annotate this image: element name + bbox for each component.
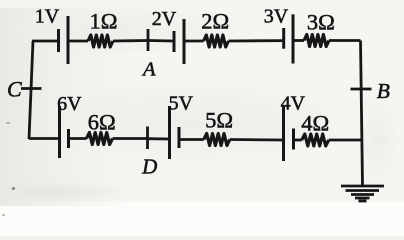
node B <box>351 88 372 91</box>
svg-text:5Ω: 5Ω <box>205 108 233 133</box>
svg-text:3Ω: 3Ω <box>307 10 335 35</box>
battery 6V long plate <box>58 106 61 158</box>
battery 1V short plate <box>57 29 60 52</box>
wire R3 to top-right corner <box>329 39 361 42</box>
wire right vertical (B branch to ground) <box>361 41 363 186</box>
battery 4V long plate <box>282 106 285 161</box>
svg-text:C: C <box>7 77 22 102</box>
node D tick <box>146 127 149 150</box>
battery 3V long plate <box>292 14 295 63</box>
resistor 5Ω <box>204 134 230 146</box>
svg-text:6V: 6V <box>57 93 82 115</box>
battery 2V long plate <box>183 19 186 64</box>
wire top-left segment <box>32 40 58 43</box>
wire battery2 to R2 <box>184 40 204 43</box>
wire battery3 to R3 <box>293 39 304 42</box>
resistor 4Ω <box>302 134 329 146</box>
wire battery6 to R6 <box>69 137 87 140</box>
resistor 3Ω <box>304 35 329 47</box>
battery 5V long plate <box>168 106 171 159</box>
svg-text:1V: 1V <box>35 6 60 28</box>
node C <box>21 87 42 90</box>
svg-text:B: B <box>377 79 390 103</box>
wire battery5 to R5 <box>179 138 204 141</box>
battery 1V long plate <box>67 16 70 64</box>
node A tick <box>147 29 150 51</box>
wire battery1 to R1 <box>68 40 88 43</box>
wire node D to battery 5V <box>148 137 170 140</box>
svg-text:5V: 5V <box>169 93 194 115</box>
resistor 2Ω <box>204 35 229 47</box>
wire R4 to bottom-right corner <box>329 139 362 142</box>
wire node A to battery 2V <box>148 39 174 42</box>
svg-text:6Ω: 6Ω <box>88 110 116 135</box>
battery 2V short plate <box>173 31 176 52</box>
wire R1 to node A <box>113 39 148 42</box>
battery 5V short plate <box>178 127 181 148</box>
wire R2 to battery 3V <box>229 39 284 42</box>
svg-text:2V: 2V <box>152 8 177 30</box>
battery 6V short plate <box>67 129 70 148</box>
resistor 1Ω <box>88 35 113 47</box>
svg-text:3V: 3V <box>264 5 289 27</box>
ground <box>341 186 384 201</box>
svg-text:D: D <box>141 155 157 179</box>
wire R5 to battery 4V <box>230 138 284 141</box>
battery 4V short plate <box>292 129 295 150</box>
battery 3V short plate <box>282 28 285 49</box>
svg-text:4Ω: 4Ω <box>301 110 329 135</box>
wire battery4 to R4 <box>294 139 302 142</box>
wire bottom-left segment <box>29 137 60 140</box>
wire R6 to node D <box>113 137 148 140</box>
svg-text:A: A <box>141 59 156 81</box>
svg-text:1Ω: 1Ω <box>90 9 118 34</box>
svg-text:2Ω: 2Ω <box>201 9 229 34</box>
resistor 6Ω <box>87 133 113 145</box>
wire left vertical (C branch) <box>29 41 33 139</box>
